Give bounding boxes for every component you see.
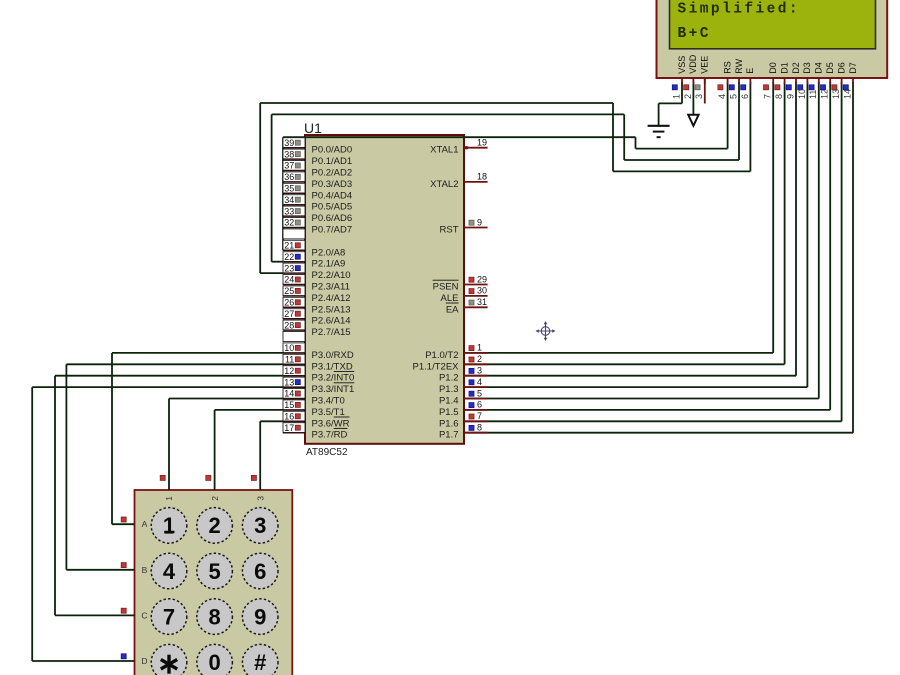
svg-text:9: 9 <box>254 604 266 629</box>
svg-text:10: 10 <box>797 89 807 99</box>
svg-text:6: 6 <box>254 559 266 584</box>
svg-text:4: 4 <box>717 94 727 99</box>
svg-text:Simplified:: Simplified: <box>678 2 801 18</box>
svg-text:6: 6 <box>740 94 750 99</box>
svg-text:15: 15 <box>284 400 294 410</box>
svg-text:9: 9 <box>477 217 482 227</box>
svg-text:D2: D2 <box>791 62 801 74</box>
svg-text:35: 35 <box>284 184 294 194</box>
svg-text:11: 11 <box>285 355 294 365</box>
svg-text:P2.7/A15: P2.7/A15 <box>312 327 351 338</box>
svg-text:P3.5/T1: P3.5/T1 <box>312 407 345 418</box>
svg-text:8: 8 <box>774 94 784 99</box>
svg-text:A: A <box>142 519 148 529</box>
svg-text:P1.2: P1.2 <box>439 373 459 384</box>
svg-text:P2.4/A12: P2.4/A12 <box>312 293 351 304</box>
svg-text:P2.5/A13: P2.5/A13 <box>312 304 351 315</box>
svg-text:RS: RS <box>722 61 732 74</box>
svg-text:2: 2 <box>683 94 693 99</box>
svg-text:D3: D3 <box>802 62 812 74</box>
svg-text:14: 14 <box>284 389 294 399</box>
svg-text:C: C <box>141 610 147 620</box>
svg-text:12: 12 <box>820 89 830 99</box>
svg-text:D1: D1 <box>779 62 789 74</box>
svg-text:13: 13 <box>284 377 294 387</box>
svg-text:P3.1/TXD: P3.1/TXD <box>312 361 353 372</box>
svg-text:29: 29 <box>477 274 487 284</box>
svg-text:9: 9 <box>785 94 795 99</box>
svg-text:1: 1 <box>671 94 681 99</box>
svg-text:P1.7: P1.7 <box>439 430 459 441</box>
svg-text:D4: D4 <box>814 62 824 74</box>
svg-text:D: D <box>141 656 147 666</box>
svg-text:P2.2/A10: P2.2/A10 <box>312 270 351 281</box>
svg-text:2: 2 <box>477 354 482 364</box>
svg-text:12: 12 <box>284 366 294 376</box>
svg-text:P0.4/AD4: P0.4/AD4 <box>312 190 353 201</box>
svg-text:PSEN: PSEN <box>433 282 459 293</box>
svg-text:P0.6/AD6: P0.6/AD6 <box>312 213 353 224</box>
svg-text:18: 18 <box>477 172 487 182</box>
svg-text:2: 2 <box>208 513 220 538</box>
svg-text:25: 25 <box>284 286 294 296</box>
svg-text:P3.3/INT1: P3.3/INT1 <box>312 384 355 395</box>
svg-text:3: 3 <box>255 496 265 501</box>
svg-text:B: B <box>142 565 148 575</box>
svg-text:39: 39 <box>284 138 294 148</box>
svg-text:P3.7/RD: P3.7/RD <box>312 430 348 441</box>
svg-text:P1.0/T2: P1.0/T2 <box>425 350 458 361</box>
svg-text:27: 27 <box>284 309 294 319</box>
svg-text:5: 5 <box>728 94 738 99</box>
svg-text:22: 22 <box>284 252 294 262</box>
svg-text:1: 1 <box>164 496 174 501</box>
svg-text:VDD: VDD <box>688 54 698 74</box>
svg-text:2: 2 <box>210 496 220 501</box>
svg-text:P2.3/A11: P2.3/A11 <box>312 282 350 293</box>
svg-text:P1.5: P1.5 <box>439 407 459 418</box>
svg-text:XTAL1: XTAL1 <box>430 145 458 156</box>
svg-text:P3.0/RXD: P3.0/RXD <box>312 350 354 361</box>
svg-text:13: 13 <box>831 89 841 99</box>
svg-text:14: 14 <box>842 89 852 99</box>
svg-text:8: 8 <box>208 604 220 629</box>
svg-text:33: 33 <box>284 206 294 216</box>
svg-text:38: 38 <box>284 149 294 159</box>
svg-text:VEE: VEE <box>700 56 710 74</box>
svg-text:19: 19 <box>477 138 487 148</box>
svg-text:1: 1 <box>163 513 175 538</box>
svg-text:16: 16 <box>284 412 294 422</box>
svg-text:21: 21 <box>284 241 294 251</box>
svg-text:30: 30 <box>477 286 487 296</box>
svg-text:D0: D0 <box>768 62 778 74</box>
svg-text:D6: D6 <box>836 62 846 74</box>
svg-text:32: 32 <box>284 218 294 228</box>
svg-text:28: 28 <box>284 320 294 330</box>
svg-text:AT89C52: AT89C52 <box>306 447 348 458</box>
svg-text:P3.4/T0: P3.4/T0 <box>312 396 345 407</box>
svg-text:XTAL2: XTAL2 <box>430 179 458 190</box>
svg-text:#: # <box>254 650 266 675</box>
svg-text:3: 3 <box>477 366 482 376</box>
svg-text:D7: D7 <box>848 62 858 74</box>
svg-text:24: 24 <box>284 275 294 285</box>
svg-text:P1.6: P1.6 <box>439 418 459 429</box>
svg-text:11: 11 <box>808 90 818 99</box>
svg-text:ALE: ALE <box>441 293 459 304</box>
svg-text:P0.2/AD2: P0.2/AD2 <box>312 168 353 179</box>
svg-text:7: 7 <box>163 604 175 629</box>
svg-text:VSS: VSS <box>677 56 687 74</box>
svg-text:3: 3 <box>254 513 266 538</box>
svg-text:17: 17 <box>284 423 294 433</box>
svg-text:3: 3 <box>694 94 704 99</box>
svg-text:P0.3/AD3: P0.3/AD3 <box>312 179 353 190</box>
svg-text:P1.1/T2EX: P1.1/T2EX <box>413 361 460 372</box>
svg-text:P3.2/INT0: P3.2/INT0 <box>312 373 355 384</box>
svg-text:5: 5 <box>477 388 482 398</box>
svg-text:8: 8 <box>477 423 482 433</box>
svg-text:P1.3: P1.3 <box>439 384 459 395</box>
svg-text:10: 10 <box>284 343 294 353</box>
svg-text:36: 36 <box>284 172 294 182</box>
svg-text:EA: EA <box>446 304 459 315</box>
svg-text:37: 37 <box>284 161 294 171</box>
svg-text:5: 5 <box>208 559 220 584</box>
svg-text:U1: U1 <box>304 120 322 136</box>
svg-text:P2.6/A14: P2.6/A14 <box>312 316 351 327</box>
svg-text:7: 7 <box>477 411 482 421</box>
svg-text:4: 4 <box>477 377 482 387</box>
svg-text:23: 23 <box>284 263 294 273</box>
svg-text:1: 1 <box>477 343 482 353</box>
svg-text:E: E <box>745 68 755 74</box>
svg-text:7: 7 <box>763 94 773 99</box>
svg-text:26: 26 <box>284 298 294 308</box>
svg-text:31: 31 <box>477 297 487 307</box>
svg-text:RW: RW <box>734 58 744 73</box>
svg-text:P0.0/AD0: P0.0/AD0 <box>312 145 353 156</box>
svg-text:34: 34 <box>284 195 294 205</box>
svg-text:P3.6/WR: P3.6/WR <box>312 418 350 429</box>
svg-text:P0.5/AD5: P0.5/AD5 <box>312 202 353 213</box>
svg-text:P0.1/AD1: P0.1/AD1 <box>312 156 353 167</box>
svg-text:6: 6 <box>477 400 482 410</box>
svg-text:RST: RST <box>440 225 459 236</box>
svg-text:P1.4: P1.4 <box>439 396 459 407</box>
svg-text:0: 0 <box>208 650 220 675</box>
svg-text:P2.0/A8: P2.0/A8 <box>312 247 346 258</box>
svg-text:B+C: B+C <box>678 26 711 42</box>
svg-text:P2.1/A9: P2.1/A9 <box>312 259 346 270</box>
svg-text:P0.7/AD7: P0.7/AD7 <box>312 225 353 236</box>
svg-text:D5: D5 <box>825 62 835 74</box>
svg-text:4: 4 <box>163 559 176 584</box>
